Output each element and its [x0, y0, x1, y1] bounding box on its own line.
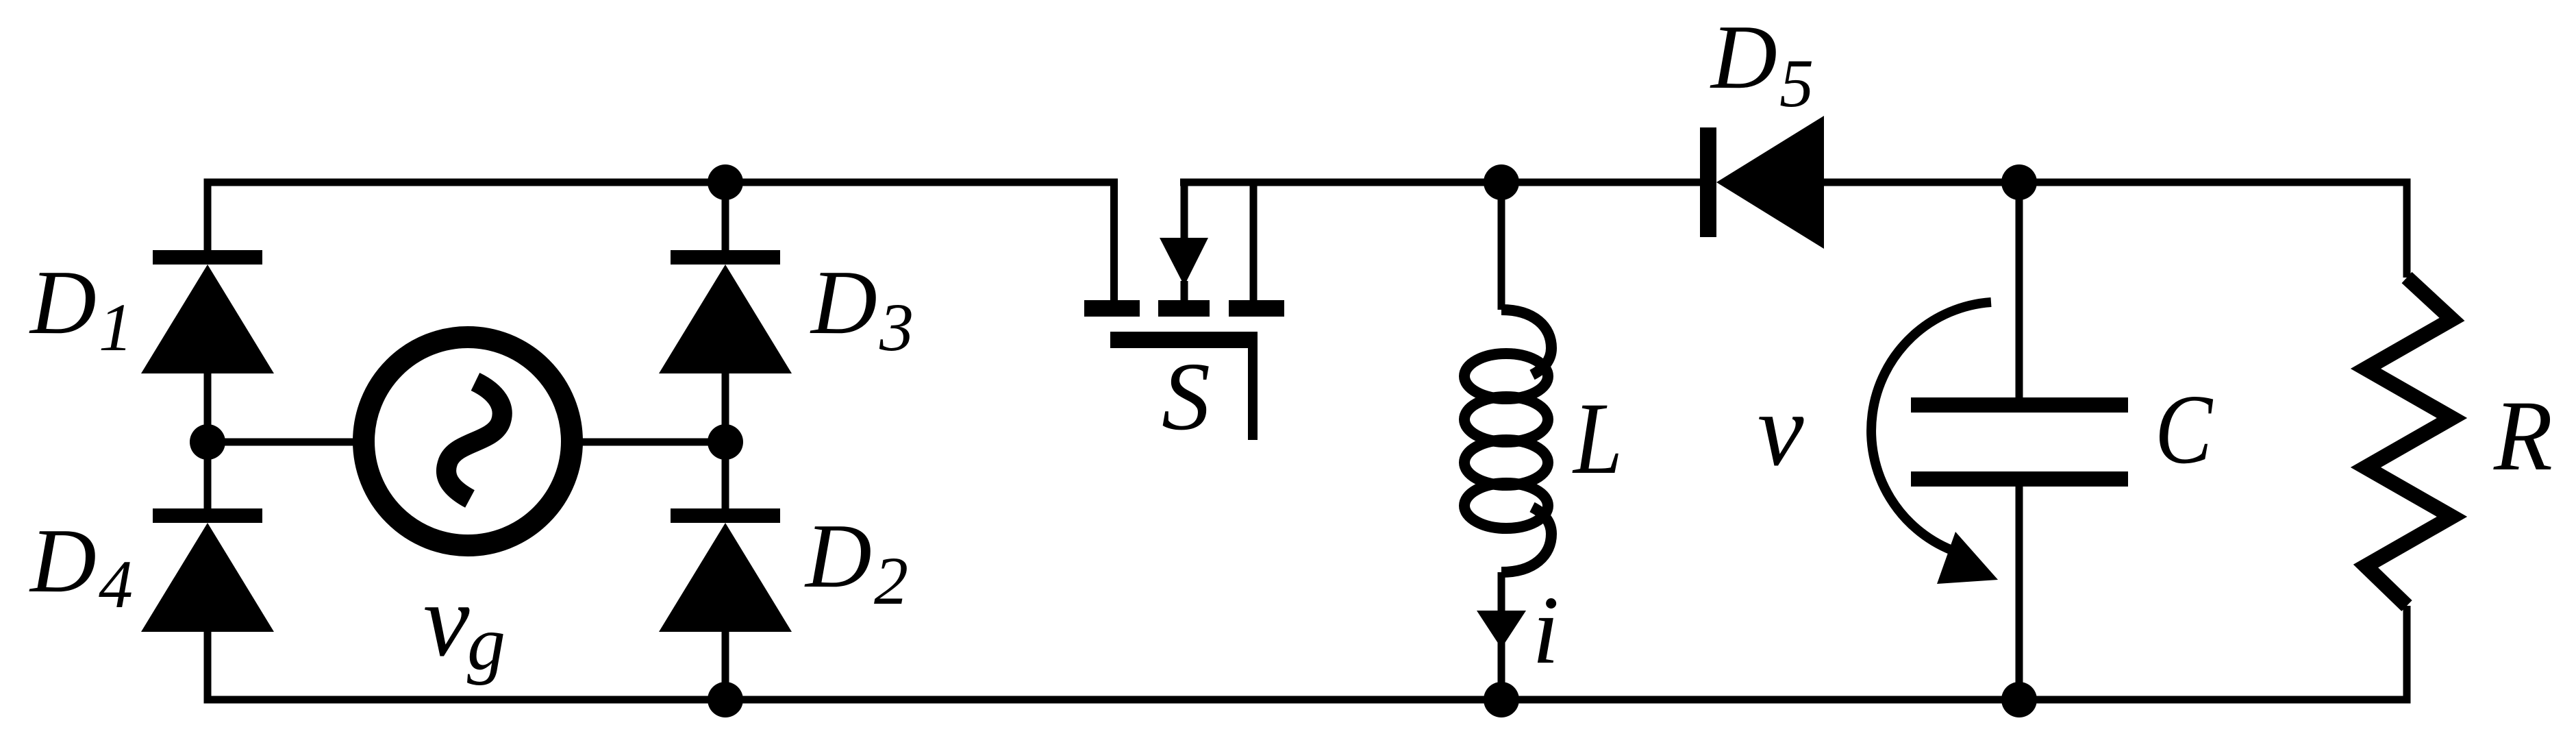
svg-text:2: 2 [874, 543, 908, 619]
wire left bridge vertical top [204, 179, 212, 251]
svg-text:C: C [2155, 375, 2214, 484]
inductor L coil [1464, 310, 1551, 572]
wire cap bottom [2016, 487, 2023, 700]
wire node to D4 [204, 442, 212, 508]
node bottom bridge right [708, 682, 743, 717]
wire D4 to bottom [204, 632, 726, 704]
capacitor C plates [1911, 397, 2128, 413]
svg-text:i: i [1532, 576, 1559, 684]
svg-text:5: 5 [1779, 45, 1814, 121]
svg-text:S: S [1162, 342, 1210, 450]
resistor R zigzag [2366, 278, 2452, 606]
svg-text:D: D [29, 251, 97, 353]
wire D2 to bottom [722, 632, 729, 700]
wire right vertical top [2403, 179, 2411, 278]
svg-text:v: v [1758, 372, 1804, 487]
diode D3 [659, 250, 792, 373]
svg-text:3: 3 [879, 289, 914, 365]
wire D3 to mid node [722, 373, 729, 442]
wire top left: bridge to MOSFET drain [204, 179, 1118, 186]
MOSFET body arrow [1160, 238, 1208, 286]
wire cap top [2016, 182, 2023, 397]
MOSFET right lead [1250, 182, 1258, 300]
diode D2 [659, 508, 792, 632]
svg-text:v: v [423, 563, 470, 678]
svg-text:D: D [1710, 6, 1777, 108]
wire right bridge vertical top [722, 182, 729, 250]
node capacitor top [2001, 164, 2037, 200]
svg-text:R: R [2493, 380, 2553, 491]
node top bridge right [708, 164, 743, 200]
MOSFET middle pad [1158, 300, 1210, 317]
sine squiggle [447, 382, 503, 499]
MOSFET right pad [1229, 300, 1284, 317]
wire mid left: node to source [208, 439, 356, 446]
svg-text:L: L [1572, 382, 1623, 495]
diode D1 [141, 250, 274, 373]
svg-text:4: 4 [99, 546, 133, 622]
svg-text:D: D [810, 251, 877, 353]
svg-text:D: D [804, 505, 872, 606]
v arrowhead [1937, 532, 1998, 584]
wire right vertical bottom [2403, 606, 2411, 704]
wire top mid: MOSFET to D5 [1180, 179, 1700, 186]
wire D5 to cap node [1824, 179, 2411, 186]
svg-text:g: g [467, 601, 505, 686]
wire mid right: source to right bridge node [579, 439, 725, 446]
svg-text:1: 1 [99, 289, 133, 365]
v arrow arc [1871, 302, 1991, 552]
MOSFET S drain lead [1110, 182, 1118, 300]
wire bottom: bridge to R [725, 696, 2411, 704]
wire node to D2 [722, 442, 729, 508]
node right mid [708, 424, 743, 460]
wire inductor bottom [1498, 572, 1505, 700]
MOSFET gate lead [1248, 348, 1258, 440]
current arrow i [1477, 611, 1526, 648]
wire D1 to mid node [204, 373, 212, 442]
svg-text:D: D [29, 510, 97, 611]
node inductor top [1484, 164, 1519, 200]
wire inductor top [1498, 182, 1505, 310]
diode D5 [1700, 116, 1824, 249]
MOSFET middle lead [1181, 182, 1188, 241]
node capacitor bottom [2001, 682, 2037, 717]
diode D4 [141, 508, 274, 632]
MOSFET left pad [1084, 300, 1140, 317]
node inductor bottom [1484, 682, 1519, 717]
MOSFET gate bar [1110, 332, 1258, 348]
node A (left mid) [190, 424, 225, 460]
AC source vg circle [364, 337, 572, 545]
